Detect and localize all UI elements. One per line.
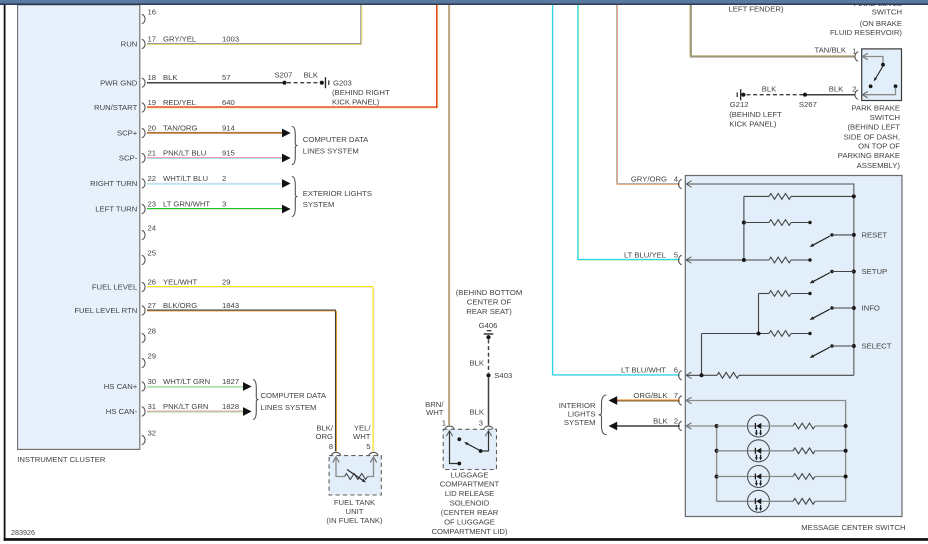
svg-text:2: 2 xyxy=(674,416,678,425)
svg-text:LT BLU/WHT: LT BLU/WHT xyxy=(621,366,666,375)
solenoid interior xyxy=(450,431,458,463)
pin 30 connector xyxy=(142,382,145,391)
svg-text:FUEL LEVEL: FUEL LEVEL xyxy=(92,283,138,292)
vertical V2 xyxy=(758,294,760,334)
svg-text:YEL/WHT: YEL/WHT xyxy=(163,277,197,286)
pin 3 connector xyxy=(484,426,493,429)
svg-text:20: 20 xyxy=(148,123,157,132)
svg-text:LINES SYSTEM: LINES SYSTEM xyxy=(261,403,317,412)
pin 21 connector xyxy=(142,153,145,162)
svg-text:(CENTER REAR: (CENTER REAR xyxy=(441,508,499,517)
splice S403 xyxy=(486,373,490,377)
arrow to exterior lights xyxy=(282,205,291,214)
svg-text:25: 25 xyxy=(148,248,157,257)
svg-text:8: 8 xyxy=(329,442,333,451)
pin 29 connector xyxy=(142,358,145,367)
wire WHT/LT BLU 2 pin22 xyxy=(147,182,282,184)
pin 17 connector xyxy=(142,39,145,48)
svg-text:COMPUTER DATA: COMPUTER DATA xyxy=(303,135,369,144)
LED lamp row 1 xyxy=(717,425,749,427)
svg-text:FLUID RESERVOIR): FLUID RESERVOIR) xyxy=(830,28,902,37)
switch contact dot lower-left xyxy=(869,84,873,88)
resistor row LED 4 xyxy=(793,498,815,504)
svg-text:BLK: BLK xyxy=(829,85,844,94)
svg-text:4: 4 xyxy=(674,174,679,183)
brace computer data lines system lower xyxy=(253,380,259,420)
svg-text:TAN/BLK: TAN/BLK xyxy=(815,46,847,55)
svg-text:S207: S207 xyxy=(275,70,293,79)
svg-text:BLK: BLK xyxy=(304,70,319,79)
svg-text:(BEHIND BOTTOM: (BEHIND BOTTOM xyxy=(456,288,523,297)
resistor row 5 xyxy=(702,333,770,335)
pin 4 connector GRY/ORG xyxy=(679,179,682,188)
resistor row 1 xyxy=(744,195,769,197)
svg-text:SETUP: SETUP xyxy=(862,267,888,276)
svg-text:KICK PANEL): KICK PANEL) xyxy=(332,98,380,107)
svg-text:REAR SEAT): REAR SEAT) xyxy=(466,307,512,316)
svg-text:RUN/START: RUN/START xyxy=(94,103,138,112)
message center switch box xyxy=(685,176,902,517)
svg-text:ORG/BLK: ORG/BLK xyxy=(633,391,668,400)
svg-text:KICK PANEL): KICK PANEL) xyxy=(729,120,777,129)
wire pin6 row resistor xyxy=(686,374,717,376)
pin 2 connector BLK xyxy=(679,421,682,430)
svg-text:18: 18 xyxy=(148,73,157,82)
svg-text:GRY/YEL: GRY/YEL xyxy=(163,34,197,43)
pin 32 connector xyxy=(142,435,145,444)
svg-text:LUGGAGE: LUGGAGE xyxy=(450,471,488,480)
svg-text:BLK: BLK xyxy=(469,359,484,368)
svg-text:6: 6 xyxy=(674,366,678,375)
wire pin5 row resistor xyxy=(686,259,769,261)
svg-text:3: 3 xyxy=(222,199,226,208)
svg-text:(BEHIND LEFT: (BEHIND LEFT xyxy=(729,110,782,119)
svg-text:1: 1 xyxy=(442,418,446,427)
svg-text:ASSEMBLY): ASSEMBLY) xyxy=(857,161,901,170)
ground G212 xyxy=(741,93,745,97)
svg-text:LEFT FENDER): LEFT FENDER) xyxy=(729,5,784,14)
svg-text:MESSAGE CENTER SWITCH: MESSAGE CENTER SWITCH xyxy=(801,523,905,532)
wire BLK to interior lights xyxy=(617,425,680,427)
dashed BLK to G203 xyxy=(287,82,319,84)
wire BRN/WHT vertical to luggage solenoid xyxy=(448,5,450,426)
svg-text:PNK/LT GRN: PNK/LT GRN xyxy=(163,402,208,411)
svg-text:PNK/LT BLU: PNK/LT BLU xyxy=(163,148,206,157)
svg-text:S403: S403 xyxy=(494,371,512,380)
wire TAN/BLK from fluid level switch xyxy=(689,5,691,57)
svg-text:2: 2 xyxy=(222,174,226,183)
svg-text:COMPARTMENT: COMPARTMENT xyxy=(440,480,500,489)
svg-text:PARK BRAKE: PARK BRAKE xyxy=(851,104,900,113)
pin 22 connector xyxy=(142,179,145,188)
svg-text:LEFT TURN: LEFT TURN xyxy=(95,205,137,214)
luggage solenoid box xyxy=(443,429,496,469)
wire LT GRN/WHT 3 pin23 xyxy=(147,208,282,210)
svg-text:29: 29 xyxy=(148,351,157,360)
svg-text:SOLENOID: SOLENOID xyxy=(450,499,490,508)
svg-text:BLK: BLK xyxy=(653,416,668,425)
svg-text:2: 2 xyxy=(852,85,856,94)
wire BLK S267 to park brake switch xyxy=(807,94,856,96)
wire YEL/WHT 29 pin26 xyxy=(147,286,374,288)
svg-text:1828: 1828 xyxy=(222,402,239,411)
svg-text:ORG: ORG xyxy=(315,432,333,441)
pin 24 connector xyxy=(142,230,145,239)
svg-text:LT GRN/WHT: LT GRN/WHT xyxy=(163,199,210,208)
svg-text:SYSTEM: SYSTEM xyxy=(564,418,596,427)
svg-text:FUEL TANK: FUEL TANK xyxy=(334,498,376,507)
wire PNK/LT BLU 915 pin21 xyxy=(147,157,282,159)
pin 23 connector xyxy=(142,204,145,213)
resistor row LED 2 xyxy=(793,448,815,454)
svg-text:(ON BRAKE: (ON BRAKE xyxy=(860,19,902,28)
switch contact dot lower-right xyxy=(894,84,898,88)
svg-text:(IN FUEL TANK): (IN FUEL TANK) xyxy=(326,516,383,525)
arrow to computer data lines xyxy=(282,154,291,163)
wire LT BLU/YEL vertical xyxy=(577,5,579,260)
svg-text:PWR GND: PWR GND xyxy=(100,78,138,87)
svg-text:WHT/LT BLU: WHT/LT BLU xyxy=(163,174,208,183)
switch wire pin2 xyxy=(863,94,896,96)
wire LT BLU/WHT vertical xyxy=(552,5,554,376)
svg-text:19: 19 xyxy=(148,98,157,107)
svg-text:BLK: BLK xyxy=(163,73,178,82)
wire pin7 row inside xyxy=(686,401,845,502)
arrow to computer data lines xyxy=(243,382,252,391)
vertical V3 xyxy=(701,334,703,376)
svg-text:26: 26 xyxy=(148,277,157,286)
wire BLK S403 to solenoid xyxy=(488,377,490,425)
svg-text:32: 32 xyxy=(148,428,157,437)
svg-text:RESET: RESET xyxy=(862,231,888,240)
svg-text:5: 5 xyxy=(674,250,678,259)
svg-text:23: 23 xyxy=(148,199,157,208)
pin 28 connector xyxy=(142,333,145,342)
svg-text:G406: G406 xyxy=(479,321,498,330)
svg-text:57: 57 xyxy=(222,73,231,82)
svg-text:1003: 1003 xyxy=(222,34,239,43)
resistor row LED 3 xyxy=(793,474,815,480)
svg-text:RUN: RUN xyxy=(121,40,138,49)
wire TAN/ORG 914 pin20 xyxy=(147,132,282,134)
svg-text:INSTRUMENT CLUSTER: INSTRUMENT CLUSTER xyxy=(17,455,106,464)
svg-text:3: 3 xyxy=(479,418,483,427)
wire ORG/BLK to interior lights xyxy=(617,399,680,401)
svg-text:G203: G203 xyxy=(333,78,352,87)
LED lamp row 2 xyxy=(715,449,719,453)
wire WHT/LT GRN 1827 pin30 xyxy=(147,385,243,387)
svg-text:1827: 1827 xyxy=(222,377,239,386)
svg-text:TAN/ORG: TAN/ORG xyxy=(163,123,197,132)
top bar overlay xyxy=(0,0,928,4)
svg-text:ON TOP OF: ON TOP OF xyxy=(858,142,900,151)
page bottom border xyxy=(4,538,928,541)
brace computer data lines system xyxy=(292,127,298,165)
switch contact dot upper xyxy=(881,63,885,67)
resistor row 2 xyxy=(742,221,746,225)
svg-text:21: 21 xyxy=(148,148,157,157)
fuel tank unit box xyxy=(329,456,381,495)
svg-text:INFO: INFO xyxy=(862,304,880,313)
pin 1 connector xyxy=(855,52,858,61)
splice S267 xyxy=(803,93,807,97)
svg-text:5: 5 xyxy=(366,442,370,451)
pin 26 connector xyxy=(142,282,145,291)
svg-text:GRY/ORG: GRY/ORG xyxy=(631,174,667,183)
svg-text:915: 915 xyxy=(222,148,235,157)
wire PNK/LT GRN 1828 pin31 xyxy=(147,410,243,412)
svg-text:31: 31 xyxy=(148,402,157,411)
svg-text:BLK/ORG: BLK/ORG xyxy=(163,301,197,310)
instrument cluster box xyxy=(18,5,140,450)
wire pin2 row inside xyxy=(686,425,716,427)
pin 7 connector ORG/BLK xyxy=(679,396,682,405)
svg-text:22: 22 xyxy=(148,174,157,183)
pin 8 connector xyxy=(331,452,340,455)
RESET switch xyxy=(852,233,856,237)
splice S207 xyxy=(282,81,286,85)
pin 19 connector xyxy=(142,103,145,112)
pin 2 connector xyxy=(855,90,858,99)
svg-text:G212: G212 xyxy=(730,100,749,109)
vertical V1 xyxy=(743,196,745,260)
SELECT switch xyxy=(852,344,856,348)
svg-text:7: 7 xyxy=(674,391,678,400)
wire GRY/YEL 1003 pin17 xyxy=(147,43,361,45)
svg-text:1: 1 xyxy=(852,46,856,55)
svg-text:COMPARTMENT LID): COMPARTMENT LID) xyxy=(431,527,507,536)
wire pin4 row xyxy=(686,184,853,375)
pin 20 connector xyxy=(142,128,145,137)
pin 31 connector xyxy=(142,407,145,416)
svg-text:SWITCH: SWITCH xyxy=(870,113,900,122)
pin 5 connector LT BLU/YEL xyxy=(679,255,682,264)
svg-text:WHT: WHT xyxy=(353,432,371,441)
fuel sender variable resistor xyxy=(336,458,345,477)
wire BLK 57 pin18 xyxy=(147,82,285,84)
resistor row 4 xyxy=(759,293,770,295)
svg-text:(BEHIND LEFT: (BEHIND LEFT xyxy=(847,122,900,131)
arrow to computer data lines xyxy=(243,407,252,416)
svg-text:30: 30 xyxy=(148,377,157,386)
svg-text:EXTERIOR LIGHTS: EXTERIOR LIGHTS xyxy=(303,189,372,198)
svg-text:SCP-: SCP- xyxy=(119,154,138,163)
LED lamp row 4 xyxy=(717,500,749,502)
svg-text:COMPUTER DATA: COMPUTER DATA xyxy=(261,391,327,400)
svg-text:27: 27 xyxy=(148,301,157,310)
park brake switch blade xyxy=(876,66,883,78)
svg-text:SELECT: SELECT xyxy=(862,342,892,351)
SETUP switch xyxy=(852,270,856,274)
pin 18 connector xyxy=(142,78,145,87)
pin 25 connector xyxy=(142,255,145,264)
resistor row LED 1 xyxy=(793,423,815,429)
wire BLK/ORG 1843 pin27 xyxy=(147,309,336,311)
svg-text:16: 16 xyxy=(148,7,157,16)
svg-text:CENTER OF: CENTER OF xyxy=(467,298,512,307)
svg-text:SYSTEM: SYSTEM xyxy=(303,200,335,209)
arrow to computer data lines xyxy=(282,129,291,138)
svg-text:BLK: BLK xyxy=(762,85,777,94)
dashed BLK G212 to S267 xyxy=(747,94,804,96)
ground G203 xyxy=(320,81,324,85)
svg-text:FUEL LEVEL RTN: FUEL LEVEL RTN xyxy=(74,306,137,315)
brace exterior lights system xyxy=(292,177,298,217)
svg-text:1843: 1843 xyxy=(222,301,239,310)
wire RED/YEL 640 pin19 xyxy=(147,106,437,108)
svg-text:914: 914 xyxy=(222,123,236,132)
svg-text:24: 24 xyxy=(148,223,157,232)
svg-text:283926: 283926 xyxy=(11,528,35,537)
svg-text:SCP+: SCP+ xyxy=(117,129,138,138)
svg-text:LINES SYSTEM: LINES SYSTEM xyxy=(303,146,359,155)
svg-text:PARKING BRAKE: PARKING BRAKE xyxy=(838,151,900,160)
svg-text:(BEHIND RIGHT: (BEHIND RIGHT xyxy=(332,88,390,97)
ground G406 xyxy=(487,330,492,331)
brace interior lights xyxy=(599,395,607,435)
pin 1 connector xyxy=(445,426,454,429)
svg-text:RIGHT TURN: RIGHT TURN xyxy=(90,179,137,188)
page left border xyxy=(4,5,6,541)
pin 5 connector xyxy=(369,452,378,455)
pin 16 connector xyxy=(142,14,145,23)
svg-text:HS CAN+: HS CAN+ xyxy=(104,382,138,391)
left LED rail xyxy=(716,426,718,501)
svg-text:SWITCH: SWITCH xyxy=(872,7,902,16)
LED lamp row 3 xyxy=(715,475,719,479)
page top bar xyxy=(0,0,928,4)
wire GRY/ORG vertical xyxy=(616,5,618,184)
svg-text:29: 29 xyxy=(222,277,231,286)
arrow to exterior lights xyxy=(282,179,291,188)
svg-text:640: 640 xyxy=(222,98,235,107)
svg-text:SIDE OF DASH,: SIDE OF DASH, xyxy=(844,133,900,142)
svg-text:UNIT: UNIT xyxy=(346,507,364,516)
svg-text:RED/YEL: RED/YEL xyxy=(163,98,197,107)
svg-text:S267: S267 xyxy=(799,100,817,109)
svg-text:17: 17 xyxy=(148,34,157,43)
fluid level / park brake switch box xyxy=(862,49,902,101)
svg-text:LID RELEASE: LID RELEASE xyxy=(445,489,495,498)
svg-text:BLK: BLK xyxy=(469,408,484,417)
pin 6 connector LT BLU/WHT xyxy=(679,371,682,380)
svg-text:HS CAN-: HS CAN- xyxy=(106,407,138,416)
svg-text:OF LUGGAGE: OF LUGGAGE xyxy=(444,518,495,527)
dashed BLK G406 to S403 xyxy=(488,340,490,374)
svg-text:28: 28 xyxy=(148,326,157,335)
switch wire pin1 xyxy=(863,57,883,64)
pin 27 connector xyxy=(142,306,145,315)
INFO switch xyxy=(852,306,856,310)
svg-text:WHT/LT GRN: WHT/LT GRN xyxy=(163,377,210,386)
svg-text:LT BLU/YEL: LT BLU/YEL xyxy=(624,250,667,259)
svg-text:WHT: WHT xyxy=(426,408,444,417)
